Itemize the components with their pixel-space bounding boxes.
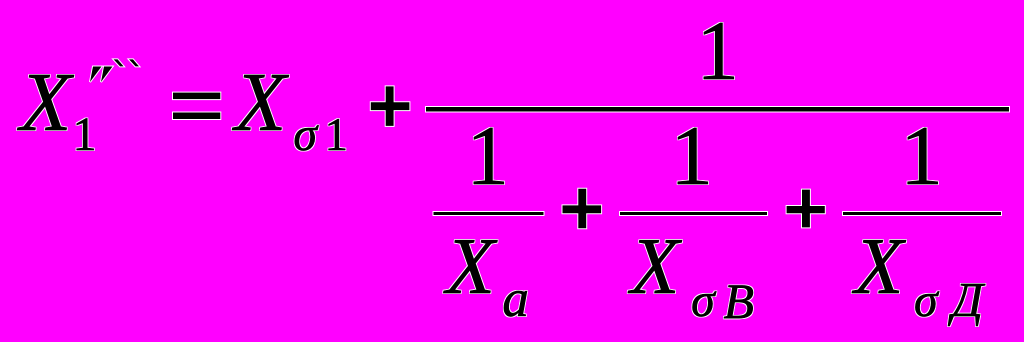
numerator 1 of fraction 1/XsigmaD [900,114,943,199]
numerator 1 of fraction 1/Xa [466,114,509,199]
fraction bar of 1/Xa [434,212,544,215]
fraction bar of 1/XsigmaB [620,212,767,215]
main fraction bar [426,107,1009,112]
grave accent mark 1 on X1 [114,59,124,66]
equals sign bottom bar [173,113,220,120]
double prime mark 1 on X1 [90,67,102,83]
plus sign 1 (between 1/Xa and 1/XsigmaB) [563,189,602,228]
variable X1 [20,61,71,145]
double prime mark 2 on X1 [101,67,113,83]
denominator X of 1/Xa [446,227,495,307]
subscript D (Cyrillic De) of XsigmaD [952,275,983,324]
grave accent mark 2 on X1 [129,59,139,66]
numerator 1 of main fraction [696,9,739,94]
subscript 1 of X1 [73,111,97,159]
subscript B of XsigmaB [724,276,755,326]
denominator X of 1/XsigmaB [631,227,680,307]
plus sign 2 (between 1/XsigmaB and 1/XsigmaD) [787,190,825,228]
subscript sigma of XsigmaB [691,277,715,325]
subscript sigma of X_sigma1 [293,111,317,159]
subscript sigma of XsigmaD [914,277,938,325]
fraction bar of 1/XsigmaD [843,212,1001,215]
variable X sigma1 [235,61,286,145]
subscript a of Xa [502,273,529,326]
subscript 1 of X_sigma1 [325,112,349,159]
equals sign top bar [173,93,220,100]
denominator X of 1/XsigmaD [855,227,904,307]
numerator 1 of fraction 1/XsigmaB [670,114,713,199]
plus sign main (after X sigma1) [371,86,410,126]
